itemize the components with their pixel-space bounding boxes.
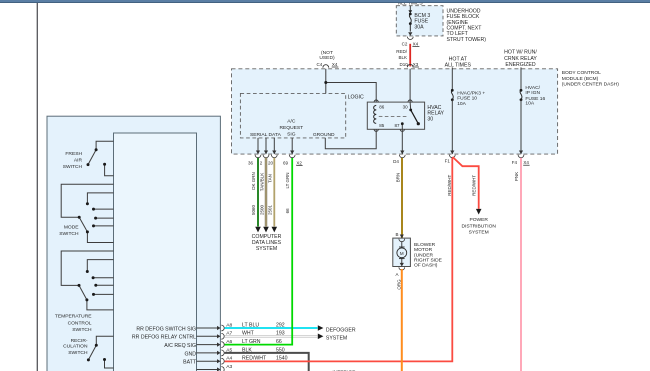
temperature control switch [61,251,113,310]
svg-text:TEMPERATURE: TEMPERATURE [55,314,92,320]
relay pin 87 wire to D4 [399,129,405,157]
svg-text:RED/WHT: RED/WHT [472,175,477,196]
svg-text:DEFOGGER: DEFOGGER [326,327,356,333]
power distribution system label [461,217,496,235]
svg-text:SWITCH: SWITCH [68,350,88,356]
not used label [319,50,335,61]
svg-text:IP IGN: IP IGN [525,90,540,96]
svg-text:RECIR-: RECIR- [71,338,88,344]
svg-text:CULATION: CULATION [63,344,88,350]
svg-text:HOT W/ RUN/: HOT W/ RUN/ [504,50,537,56]
svg-text:CONTROL: CONTROL [68,320,92,326]
blower motor symbol M [397,242,407,263]
svg-text:SYSTEM: SYSTEM [326,335,347,341]
relay coil [374,105,377,123]
svg-text:BLK: BLK [242,347,252,353]
svg-text:30: 30 [427,116,433,122]
svg-text:FRESH: FRESH [65,151,82,157]
control head signal labels [132,326,197,365]
computer data lines system label [252,234,282,252]
svg-text:85: 85 [379,123,385,128]
wire BLK 550 [225,347,309,371]
svg-text:BLOWER: BLOWER [414,242,436,248]
connector C2 X4 [402,32,420,46]
wire TAN 2501 [268,158,277,233]
svg-text:(UNDER CENTER DASH): (UNDER CENTER DASH) [562,82,619,88]
svg-text:X3: X3 [413,62,419,67]
svg-text:F4: F4 [512,160,518,165]
hot w/ run label (above F4) [504,50,537,68]
logic label [348,94,364,100]
svg-text:20: 20 [268,160,274,165]
svg-text:WHT: WHT [242,331,255,337]
blower motor connectors [399,235,405,271]
svg-text:69: 69 [283,160,289,165]
wire BRN [396,158,402,238]
svg-text:CRNK RELAY: CRNK RELAY [504,56,537,62]
svg-text:BODY CONTROL: BODY CONTROL [562,70,601,76]
fuse 16 wire to F4 [518,100,524,158]
svg-text:550: 550 [276,347,285,353]
title bar [0,0,650,3]
connector D10 X3 [400,62,419,67]
svg-text:HVAC/PK3 +: HVAC/PK3 + [457,90,485,96]
svg-text:2: 2 [260,160,263,165]
svg-text:RR DEFOG RELAY CNTRL: RR DEFOG RELAY CNTRL [132,335,196,341]
svg-text:X4: X4 [523,160,529,165]
svg-text:30A: 30A [414,25,424,31]
svg-text:OF DASH): OF DASH) [414,263,438,269]
svg-text:HVAC/: HVAC/ [525,85,540,91]
feed wire into fuse [408,6,412,14]
wire LT GRN 66 to BCM pin 69 [225,158,293,345]
wire TAN/BLK 2500 [259,158,268,233]
connector F1 [445,159,451,164]
svg-text:LT GRN: LT GRN [242,339,261,345]
svg-text:DATA LINES: DATA LINES [252,240,282,246]
svg-text:D4: D4 [393,159,399,164]
blower motor label [414,242,443,269]
svg-text:RED/WHT: RED/WHT [447,175,452,196]
pin connectors A8-A3 [217,325,224,371]
svg-text:STRUT TOWER): STRUT TOWER) [447,37,487,43]
window pane edge [36,3,38,371]
D10 wire to relay pin 30 [409,69,411,102]
pin labels 36 2 20 69 X2 [248,160,303,165]
C4 wire into logic / relay coil feed [324,69,376,102]
body control module box [232,69,558,154]
interior (cut off) label [332,370,356,371]
wire LT GRN 66 labels [285,172,290,213]
svg-text:LT GRN: LT GRN [285,172,290,188]
svg-text:2500: 2500 [259,204,264,215]
svg-text:A/C: A/C [287,119,296,125]
wire RED/WHT branch to power distribution [453,157,482,215]
svg-text:MODULE (BCM): MODULE (BCM) [562,76,599,82]
svg-text:TAN: TAN [268,174,273,183]
mode switch label [59,224,79,237]
svg-text:DK GRN: DK GRN [251,172,256,190]
underhood fuse block box [396,6,443,36]
relay pin numbers [379,105,408,128]
svg-text:ALL TIMES: ALL TIMES [445,62,472,68]
svg-text:F1: F1 [445,159,451,164]
defogger system arrows [318,325,324,339]
defogger system label [326,327,356,341]
fuse 10 feed wire [451,67,453,89]
svg-text:C2: C2 [402,41,408,46]
svg-text:ORG: ORG [397,279,402,290]
svg-text:193: 193 [276,331,285,337]
svg-text:GND: GND [184,351,196,357]
svg-text:(NOT: (NOT [321,50,333,56]
svg-text:A/C REQ SIG: A/C REQ SIG [164,343,196,349]
svg-text:ENERGIZED: ENERGIZED [505,62,536,68]
svg-text:SWITCH: SWITCH [59,231,79,237]
svg-text:X2: X2 [296,160,302,165]
svg-text:A3: A3 [226,364,232,370]
mode switch [61,184,113,242]
relay contact switch [401,102,420,129]
svg-text:TAN/BLK: TAN/BLK [259,173,264,191]
hot at all times label (above F1) [445,56,472,68]
svg-text:FUSE 10: FUSE 10 [457,96,477,102]
svg-text:SYSTEM: SYSTEM [469,229,489,235]
fuse 10 label [457,90,485,107]
svg-text:10A: 10A [457,101,466,107]
svg-text:USED): USED) [319,55,335,61]
svg-text:X4: X4 [413,41,419,46]
svg-text:MODE: MODE [64,224,79,230]
svg-text:SERIAL DATA: SERIAL DATA [250,132,282,138]
svg-text:292: 292 [276,322,285,328]
svg-text:SWITCH: SWITCH [63,164,83,170]
svg-text:DISTRIBUTION: DISTRIBUTION [461,223,496,229]
svg-text:COMPUTER: COMPUTER [252,234,282,240]
svg-text:BLK: BLK [398,55,407,60]
svg-text:RED/WHT: RED/WHT [242,356,267,362]
ground wire from logic to relay pin 85 [325,129,376,149]
svg-text:PNK: PNK [514,172,519,181]
wire PNK [514,158,521,371]
svg-text:RED/: RED/ [396,49,408,54]
svg-text:SYSTEM: SYSTEM [256,246,277,252]
svg-text:66: 66 [285,208,290,214]
serial data wires inside BCM [258,138,292,154]
wire DK GRN 5060 [251,158,261,233]
wire RED/WHT 1540 to BCM pin F1 [225,158,453,362]
svg-text:LT BLU: LT BLU [242,322,259,328]
pin row wires A8-A3 [197,328,218,370]
wire ORG [397,269,402,371]
svg-text:C4: C4 [317,62,323,67]
connector A [395,272,398,277]
relay mechanical link [379,115,409,117]
fuse 16 label [525,85,545,107]
fuse 16 feed wire [520,67,522,89]
svg-text:RIGHT SIDE: RIGHT SIDE [414,258,443,264]
relay pin bumps [374,100,412,131]
temperature control switch label [55,314,92,334]
svg-text:BRN: BRN [396,173,401,183]
svg-text:SIG: SIG [287,132,296,138]
fuse HVAC/ IP IGN FUSE 16 10A [520,89,523,101]
HVAC control head outer box [47,116,220,371]
svg-text:86: 86 [379,105,385,110]
svg-text:RR DEFOG SWITCH SIG: RR DEFOG SWITCH SIG [136,326,196,332]
svg-text:36: 36 [248,160,254,165]
svg-text:AIR: AIR [74,158,83,164]
svg-text:(UNDER: (UNDER [414,252,433,258]
BCM bottom connectors 36 2 20 69 [255,151,295,158]
fresh air switch label [63,151,83,170]
fuse 10 wire to F1 [449,100,455,158]
svg-text:87: 87 [394,123,400,128]
fuse BCM 3 label [414,13,430,31]
HVAC control head inner module box [114,133,197,371]
svg-text:5060: 5060 [251,204,256,215]
fresh air switch [87,141,114,175]
connector C4 X4 [317,62,339,68]
svg-text:M: M [400,251,404,256]
wire RED/BLK [396,44,410,67]
svg-text:SWITCH: SWITCH [72,327,92,333]
connector F4 X4 [512,160,530,165]
logic box [240,93,345,137]
svg-text:B: B [395,232,398,237]
svg-text:A: A [395,272,398,277]
recirculation switch label [63,338,88,356]
svg-text:REQUEST: REQUEST [279,125,303,131]
recirculation switch [87,336,114,368]
svg-text:GROUND: GROUND [313,132,335,138]
svg-text:BATT: BATT [183,360,197,366]
svg-text:MOTOR: MOTOR [414,247,433,253]
RED/WHT vertical labels [447,175,477,196]
underhood fuse block label [447,8,487,43]
svg-text:2501: 2501 [268,204,273,215]
pin designators A8-A3 [226,322,232,369]
svg-text:POWER: POWER [469,217,488,223]
wire WHT 193 [225,331,318,337]
blower motor box [393,238,411,266]
svg-text:LOGIC: LOGIC [348,94,364,100]
wire LT BLU 292 [225,322,318,328]
body control module label [562,70,619,88]
svg-text:X4: X4 [332,62,338,67]
svg-text:1540: 1540 [276,356,288,362]
connector B [395,232,398,237]
svg-text:10A: 10A [525,101,534,107]
fuse HVAC/PK3 FUSE 10 10A [451,89,454,101]
hot at all times label (top, clipped) [398,1,423,7]
HVAC relay box [367,102,424,129]
fuse BCM 3 30A [409,13,412,32]
svg-text:66: 66 [276,339,282,345]
HVAC relay label [427,105,444,122]
connector D4 [393,159,399,164]
logic labels A/C REQUEST SIG, SERIAL DATA, GROUND [250,119,335,139]
svg-text:30: 30 [403,105,409,110]
